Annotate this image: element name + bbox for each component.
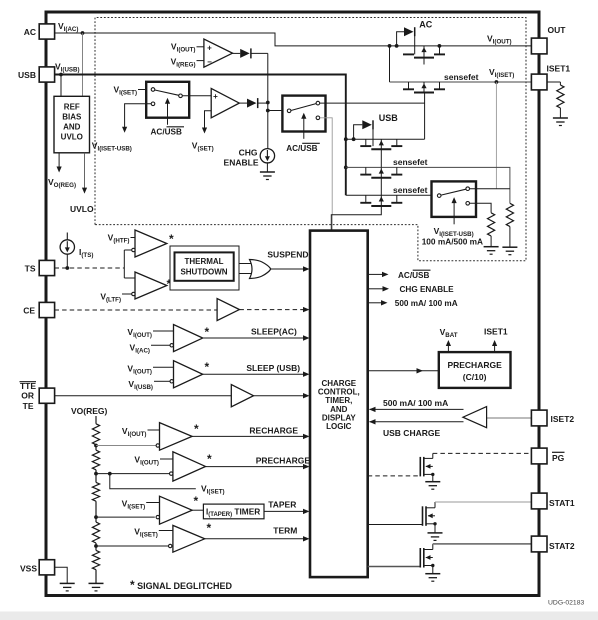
block PRECHARGE (C/10) [439,352,511,388]
wire V_(LTF) to U4 inverting input [122,293,132,295]
svg-text:500 mA/ 100 mA: 500 mA/ 100 mA [395,299,458,308]
wire U1 output to diode [233,52,241,54]
junction of comparator U2 output on rail [266,101,270,105]
wire 500mA/100mA into logic [370,408,464,410]
svg-text:TERM: TERM [273,526,297,536]
dashed wire CE buffer to logic [239,309,303,311]
wire U2 - input from V_(SET) [205,111,212,130]
wire U11 to timer box [192,509,203,511]
svg-text:THERMAL: THERMAL [184,257,223,266]
resistor chain R6 [95,470,97,483]
dashed power-path enclosure [95,18,526,261]
diode D4 USB [354,125,363,139]
comparator U3 HTF [135,230,167,257]
svg-text:TE: TE [23,401,34,411]
wire to U11 + input [146,502,159,504]
tap wire term threshold [94,544,98,548]
ground at VSS [60,582,75,584]
wire USB CHARGE into logic [370,421,464,423]
outer IC boundary frame [46,12,539,596]
gate wire to STAT1 transistor [368,524,423,526]
wire to U7 inverting input [154,380,170,382]
svg-text:*: * [194,494,199,508]
svg-text:USB CHARGE: USB CHARGE [383,428,440,438]
svg-text:ISET2: ISET2 [551,414,575,424]
comparator U6 SLEEP(AC) [174,325,203,352]
wire ISET2 pin to buffer [487,417,532,419]
drain wire to STAT1 pin [434,502,436,508]
wire S2 lower output down to logic [320,118,332,231]
buffer U5 CE [217,299,239,321]
USB FET rail [346,138,425,140]
transistor Q3 USB pass FET [360,145,371,147]
wire SLEEP(USB) to logic [203,373,304,375]
svg-text:UVLO: UVLO [61,133,83,142]
svg-text:sensefet: sensefet [393,157,428,167]
wire to U12 + input [159,530,173,532]
resistor chain R4 [95,416,97,424]
svg-text:+: + [207,44,212,53]
wire SLEEP(AC) to logic [203,337,304,339]
pin STAT1 [531,493,547,509]
comparator U9 RECHARGE [160,423,193,451]
svg-text:*: * [207,521,212,535]
wire U1 + input [197,46,204,48]
svg-text:BIAS: BIAS [62,113,82,122]
svg-text:ENABLE: ENABLE [224,158,259,168]
svg-text:AC: AC [24,27,36,37]
wire output CHG ENABLE [368,288,383,290]
svg-text:SHUTDOWN: SHUTDOWN [180,268,227,277]
sensefet1 rail to current-set resistor [346,167,510,203]
wire D2 cathode to rail [258,102,268,104]
tap wire recharge threshold [94,444,98,448]
wire S1 output to comparator U2 [182,95,211,97]
ground below R2 [502,246,517,248]
svg-text:−: − [207,58,212,67]
wire V_I(USB) from USB pin (thick) down to USB FET rails [55,75,346,196]
pin AC [39,24,54,39]
wire to U10 + input [160,458,173,460]
block THERMAL SHUTDOWN [175,252,234,280]
svg-text:*: * [194,422,199,436]
resistor R3 external ISET1 [557,85,564,108]
wire D1 cathode to CHG-ENABLE rail [251,52,268,54]
wire USB sense to REF block [60,75,62,97]
wire V_O(REG) output arrow [58,153,60,168]
comparator U12 TERM [173,525,205,552]
dashed drain wire to PG pin [432,453,434,458]
svg-text:USB: USB [379,113,399,123]
svg-text:TTE: TTE [20,381,36,391]
wire TS vertical to comparators [123,250,125,278]
svg-text:TS: TS [25,264,36,274]
wire TS to U3 inverting input [124,249,131,251]
svg-text:AC/USB: AC/USB [398,271,429,280]
wire S3 lower output to R1 [470,203,492,213]
select arrow into S3 [453,199,455,224]
svg-text:CHG: CHG [239,148,258,158]
svg-text:OUT: OUT [548,25,567,35]
wire to U7 + input [153,366,174,368]
wire AC sense to REF block [82,33,84,96]
svg-text:PRECHARGE: PRECHARGE [256,456,311,466]
block REF BIAS AND UVLO [54,96,90,153]
ground below CHG ENABLE source [260,171,275,173]
wire TAPER to logic [264,510,304,512]
wire current source to TS node [66,254,68,268]
switch mux S3 current select [432,181,477,217]
wire TTE buffer to logic [254,395,305,397]
gate column Q2 to mux select [424,93,426,140]
pin CE [39,302,54,317]
pin PG [531,448,547,464]
wire U2 output to diode D2 [239,102,247,104]
svg-text:* SIGNAL DEGLITCHED: * SIGNAL DEGLITCHED [130,578,233,592]
wire U1 - input [197,60,204,62]
select arrow into S2 [303,115,305,139]
wire V_(HTF) to comparator U3 [131,237,136,239]
transistor Q4 USB sensefet [360,174,371,176]
pin STAT2 [531,536,547,552]
group box thermal comparators [170,246,239,290]
block CHARGE CONTROL TIMER AND DISPLAY LOGIC [310,231,368,577]
svg-text:AC/USB: AC/USB [151,128,182,137]
buffer U13 ISET2 (left pointing) [463,407,487,428]
ground below R1 [484,246,499,248]
comparator U1 [204,39,233,67]
resistor chain R5 [95,445,97,451]
ground below R3 [553,117,568,119]
drain wire to STAT2 pin [432,544,434,550]
pin USB [39,67,54,82]
block I(TAPER) TIMER [203,504,264,519]
wire ISET1 node down to current-set switch [495,82,497,189]
svg-text:TAPER: TAPER [268,500,296,510]
comparator U10 PRECHARGE [173,452,206,481]
dashed wire from CE pin [55,309,218,311]
node junctions on USB FET rail [344,137,348,141]
wire SUSPEND to logic block [271,268,304,270]
wire output 500mA/100mA [368,302,382,304]
node junction sensefet1 rail [344,166,348,170]
pin OUT [531,38,547,54]
wire rail to mux S2 [268,110,283,112]
svg-text:PRECHARGE: PRECHARGE [447,360,502,370]
svg-text:CHG ENABLE: CHG ENABLE [400,285,455,294]
svg-text:STAT1: STAT1 [549,498,575,508]
dashed wire from TS pin [55,267,125,269]
sensefet2 rail into current-set switch [346,194,432,196]
transistor Q6 PG open-drain [419,457,421,477]
wire to U9 + input [148,429,160,431]
pin TS [39,260,54,275]
junction of mux feed on rail [266,109,270,113]
node TS junction [65,266,69,270]
svg-text:OR: OR [21,391,34,401]
svg-text:ISET1: ISET1 [484,327,508,337]
svg-text:VO(REG): VO(REG) [71,406,108,416]
resistor R1 (500mA set) [488,213,495,236]
wire S1 lower input from V_I(ISET-USB) [125,104,152,129]
gate wire to STAT2 transistor [368,566,421,568]
resistor R2 (100mA set) [506,203,513,226]
wire TS to U4 input [124,277,135,279]
wire V_I(AC) from AC pin to OUT rail [55,33,532,46]
ground below Q6 [425,481,440,483]
diode D2 [247,99,257,108]
wire V_I(SET) feed [110,474,196,489]
resistor chain R8 [95,543,97,550]
ground below divider chain [89,582,104,584]
pin VSS [39,560,54,575]
pin ISET1 [531,74,547,90]
comparator U2 [211,88,239,117]
svg-text:VSS: VSS [20,564,37,574]
svg-text:SLEEP (USB): SLEEP (USB) [246,363,300,373]
OR gate suspend [250,260,271,279]
svg-text:UVLO: UVLO [70,204,94,214]
wire ISET1 arrow from precharge [494,343,496,352]
pin ISET2 [531,410,547,426]
current source CHG ENABLE [260,149,274,163]
wire D3 cathode down to Q1 [414,32,416,55]
svg-text:sensefet: sensefet [393,185,428,195]
ground below Q7 [428,532,443,534]
diode D3 AC [397,32,404,46]
bottom page strip [0,612,598,620]
svg-text:500 mA/ 100 mA: 500 mA/ 100 mA [383,398,448,408]
wire D4 cathode down to Q3 [372,125,374,146]
comparator U11 TAPER [160,496,193,524]
current source I_(TS) [66,233,68,240]
wire S3 upper output [470,188,510,190]
wire AC sensefet rail to ISET1 [389,46,391,82]
wire PRECHARGE to logic [206,466,305,468]
wire S2 upper output to sensefet gate column [320,102,425,104]
ground below Q8 [425,573,440,575]
buffer U8 TTE/TE [231,385,253,407]
svg-text:AND: AND [63,123,81,132]
pin TTE [39,388,54,403]
wire to U6 + input [153,330,174,332]
transistor Q7 STAT1 open-drain [422,506,424,526]
svg-text:AC: AC [419,20,432,30]
wire Q8 source to ground [432,566,434,574]
comparator U7 SLEEP(USB) [174,361,203,388]
dashed gate wire to PG transistor [368,475,421,477]
tap wire taper threshold [94,515,98,519]
svg-text:(C/10): (C/10) [463,372,487,382]
wire TERM to logic [205,538,304,540]
wire thermal box to OR gate inputs [239,263,252,265]
wire to U6 inverting input [151,344,170,346]
svg-text:*: * [205,325,210,339]
diode D1 [240,49,250,58]
wire UVLO output arrow [84,153,86,189]
wire logic to precharge block [368,370,439,372]
svg-text:AC/USB: AC/USB [286,144,317,153]
svg-text:*: * [205,360,210,374]
switch mux S2 AC/USB [282,96,325,132]
svg-text:RECHARGE: RECHARGE [249,426,298,436]
svg-text:USB: USB [18,70,36,80]
node junctions on OUT rail [388,44,392,48]
wire V_I(SET) to S1 [138,89,146,91]
transistor Q8 STAT2 open-drain [419,548,421,568]
svg-text:ISET1: ISET1 [547,64,571,74]
transistor Q1 AC pass FET [434,53,445,55]
wire from TTE/TE pin [55,395,232,397]
svg-text:*: * [169,232,174,246]
wire RECHARGE to logic [192,435,304,437]
svg-text:+: + [213,92,218,101]
svg-text:UDG-02183: UDG-02183 [548,600,584,607]
wire ISET1 pin to external resistor [547,81,561,83]
transistor Q5 USB sensefet 2 [360,202,371,204]
select arrow into S1 [167,100,169,125]
svg-text:CE: CE [23,306,35,316]
wire to ground from current source [266,162,268,172]
svg-text:PG: PG [552,453,565,463]
svg-text:*: * [207,452,212,466]
svg-text:100 mA/500 mA: 100 mA/500 mA [422,237,483,247]
wire V_BAT arrow from precharge [447,343,449,352]
drain of Q5 to charge logic [331,206,381,231]
transistor Q2 AC sensefet [403,88,414,90]
wire Q7 source to ground [434,524,436,533]
comparator U4 LTF [135,272,167,299]
svg-text:REF: REF [64,103,80,112]
svg-text:LOGIC: LOGIC [326,422,352,431]
svg-text:SUSPEND: SUSPEND [267,250,308,260]
vertical CHG-ENABLE rail [267,53,269,149]
wire VSS pin to ground [55,567,68,583]
wire Q6 source to ground [432,475,434,482]
node junction on AC wire [81,31,85,35]
node junction on USB wire [59,73,63,77]
resistor chain R7 [95,501,97,522]
tap wire precharge threshold [94,472,98,476]
svg-text:sensefet: sensefet [444,72,479,82]
wire output AC/USB [368,273,383,275]
switch mux S1 AC/USB [146,82,189,118]
svg-text:STAT2: STAT2 [549,541,575,551]
svg-text:SLEEP(AC): SLEEP(AC) [251,327,297,337]
node ISET1 junction [495,80,499,84]
